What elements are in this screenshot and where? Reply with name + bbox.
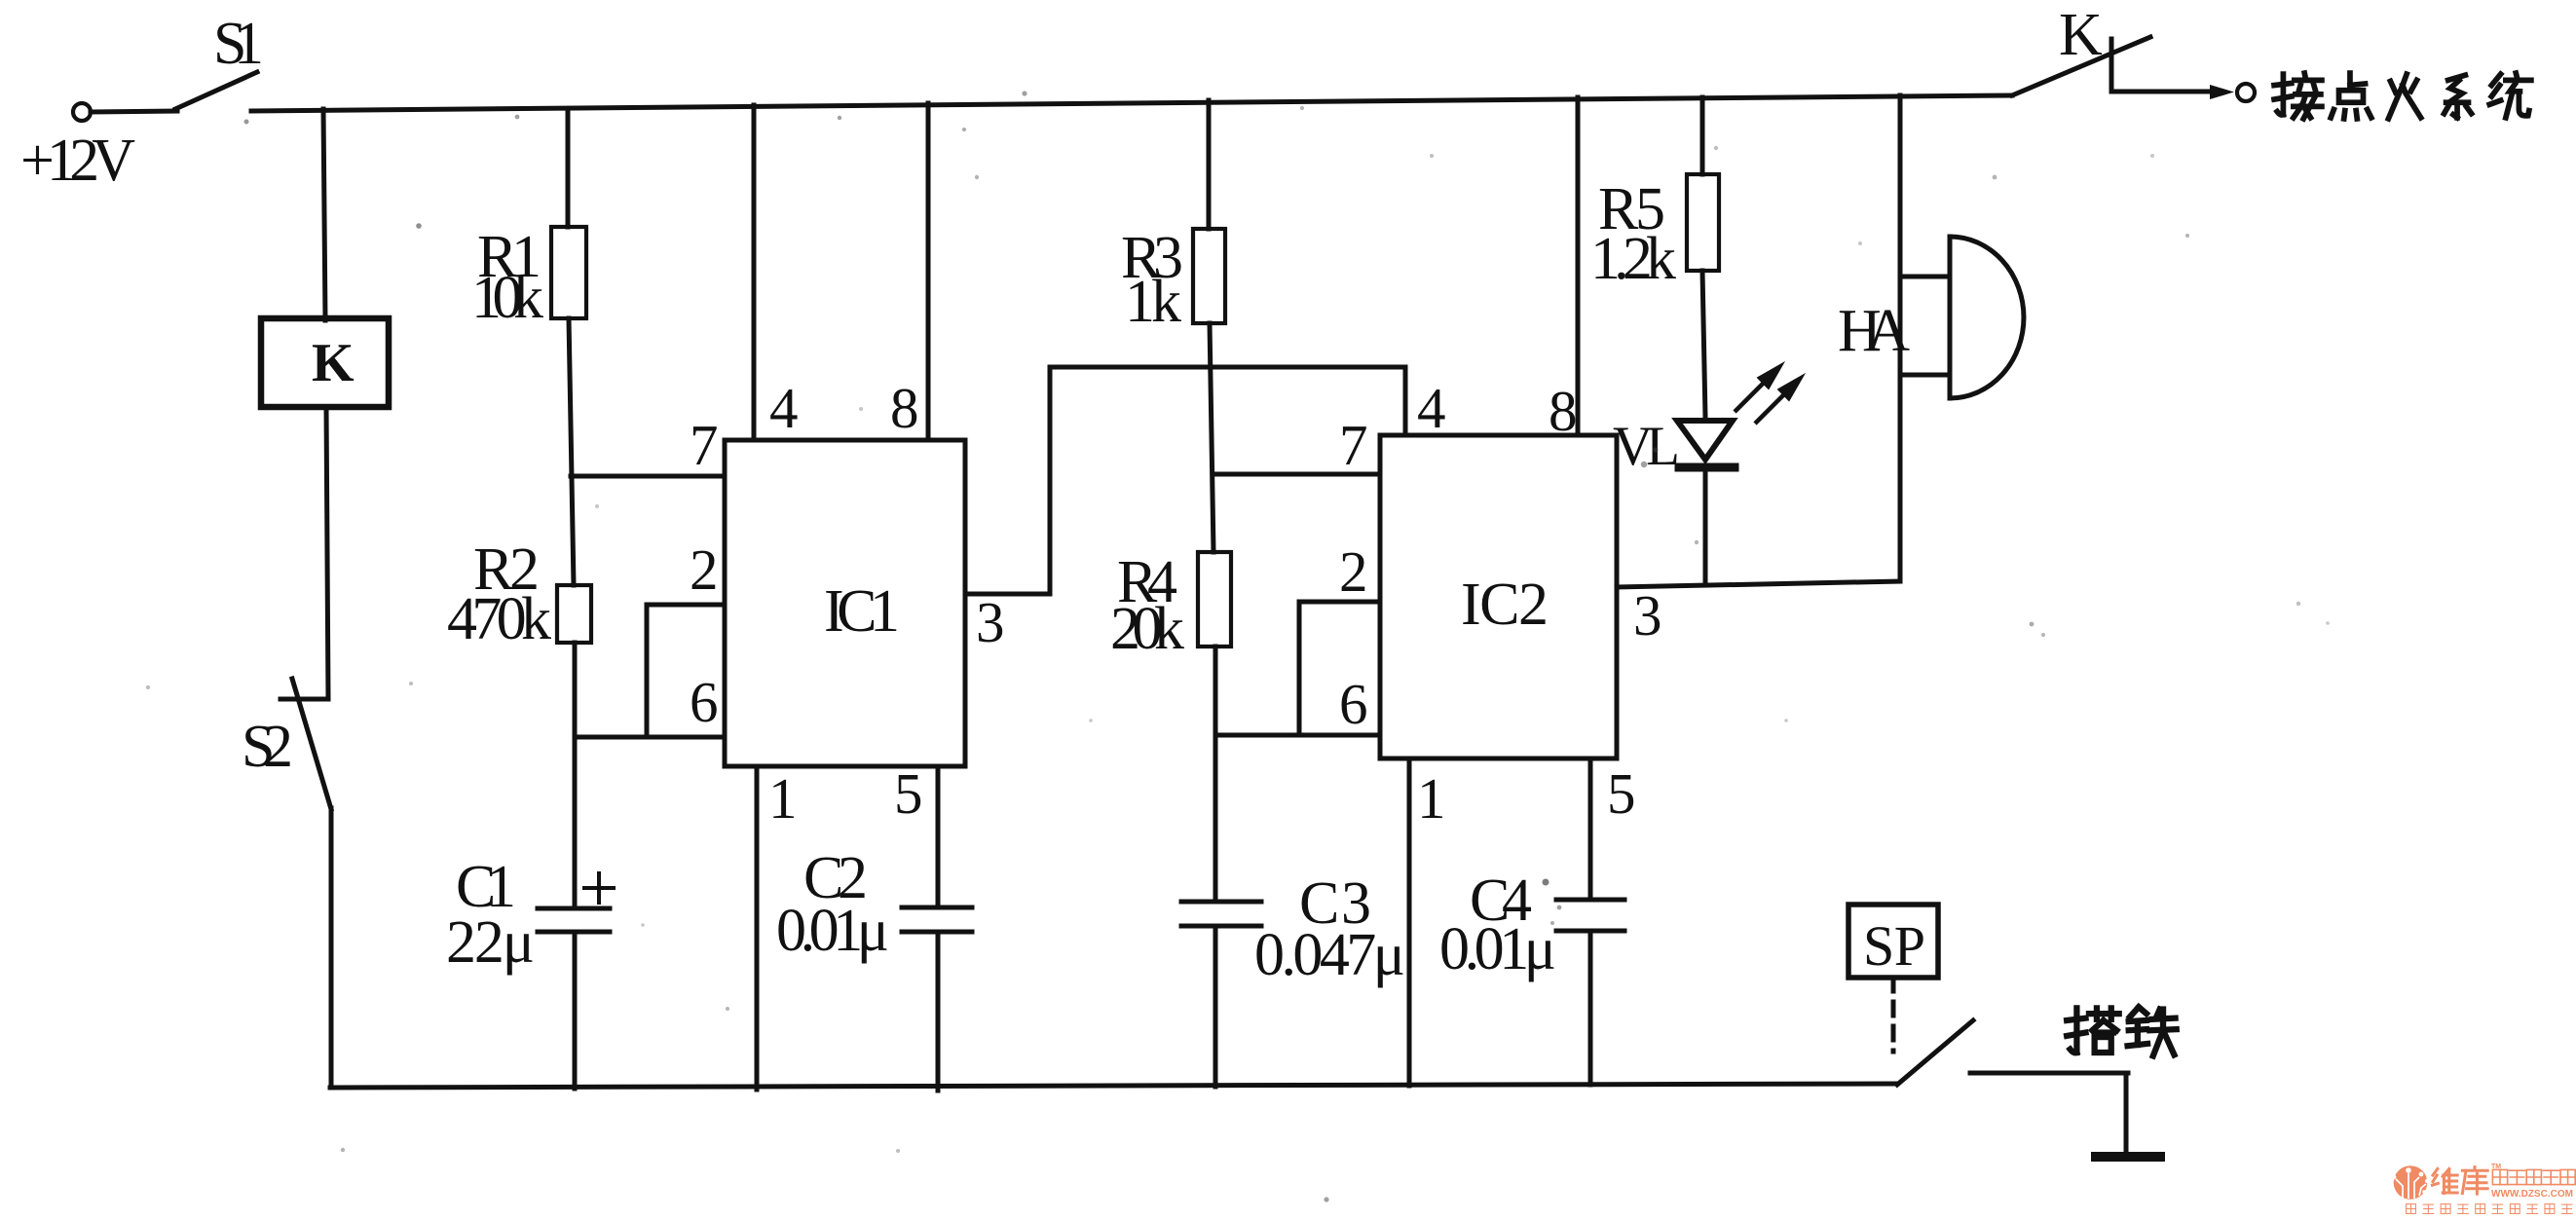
svg-text:4: 4 xyxy=(769,376,799,440)
svg-text:WWW.DZSC.COM: WWW.DZSC.COM xyxy=(2491,1188,2573,1200)
svg-text:TM: TM xyxy=(2491,1164,2501,1170)
svg-text:8: 8 xyxy=(1549,379,1578,443)
svg-text:2: 2 xyxy=(1339,539,1368,604)
svg-text:0.01μ: 0.01μ xyxy=(1439,916,1556,982)
svg-text:VL: VL xyxy=(1613,416,1680,477)
svg-text:470k: 470k xyxy=(447,586,551,652)
svg-text:0.047μ: 0.047μ xyxy=(1254,922,1405,988)
svg-text:+12V: +12V xyxy=(20,128,135,194)
svg-text:22μ: 22μ xyxy=(446,909,535,976)
svg-text:2: 2 xyxy=(690,537,719,602)
svg-text:K: K xyxy=(312,333,355,393)
svg-text:4: 4 xyxy=(1417,376,1446,440)
svg-text:10k: 10k xyxy=(471,265,543,331)
svg-text:6: 6 xyxy=(1339,672,1368,736)
svg-text:1.2k: 1.2k xyxy=(1590,226,1676,292)
svg-text:7: 7 xyxy=(1339,413,1368,477)
svg-text:1: 1 xyxy=(768,766,798,831)
svg-text:SP: SP xyxy=(1863,914,1925,978)
svg-text:5: 5 xyxy=(1607,761,1636,826)
svg-text:6: 6 xyxy=(690,670,719,734)
svg-text:S1: S1 xyxy=(213,11,264,77)
svg-text:K: K xyxy=(2059,2,2103,68)
svg-text:7: 7 xyxy=(690,413,719,477)
svg-text:5: 5 xyxy=(894,761,923,826)
svg-text:20k: 20k xyxy=(1110,596,1184,662)
svg-text:0.01μ: 0.01μ xyxy=(776,898,889,964)
svg-text:1k: 1k xyxy=(1125,269,1181,335)
svg-text:3: 3 xyxy=(1633,583,1662,647)
svg-text:1: 1 xyxy=(1417,766,1446,831)
svg-text:S2: S2 xyxy=(242,714,293,780)
svg-text:IC1: IC1 xyxy=(824,578,900,645)
svg-text:8: 8 xyxy=(890,376,919,440)
svg-text:IC2: IC2 xyxy=(1461,572,1549,638)
svg-text:3: 3 xyxy=(976,590,1005,654)
svg-text:HA: HA xyxy=(1838,298,1910,364)
